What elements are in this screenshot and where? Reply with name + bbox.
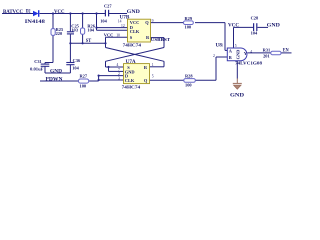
- wire R29 to gate A vertical: [195, 22, 225, 24]
- svg-text:5: 5: [152, 75, 154, 79]
- svg-text:3: 3: [118, 77, 120, 81]
- svg-text:104: 104: [72, 66, 79, 71]
- svg-text:D2: D2: [26, 9, 31, 15]
- wire R31 to EN label: [281, 52, 292, 54]
- svg-text:201: 201: [263, 54, 270, 59]
- wire right cross vertical upper: [163, 38, 165, 48]
- svg-text:VCC: VCC: [228, 22, 239, 28]
- svg-text:74HC74: 74HC74: [123, 43, 142, 48]
- wire GND net horizontal: [45, 72, 70, 74]
- svg-text:USBRST: USBRST: [151, 37, 170, 42]
- svg-text:4: 4: [250, 50, 252, 54]
- wire R26 bottom to ST bus: [82, 34, 84, 43]
- wire U7B CLK pin: [97, 29, 128, 31]
- wire U7B R pin: [151, 37, 165, 39]
- wire C28 to GND label: [258, 26, 269, 28]
- svg-text:1: 1: [152, 63, 154, 67]
- svg-text:103: 103: [71, 28, 78, 33]
- svg-text:EN: EN: [283, 48, 289, 54]
- wire gate A stub: [225, 49, 227, 51]
- wire U7A D pin: [99, 75, 124, 77]
- wire U7B Q to R29: [151, 22, 184, 24]
- svg-text:GND: GND: [230, 93, 244, 99]
- wire diagonal top-left to bottom-right: [106, 48, 165, 62]
- capacitor C36: [66, 63, 74, 65]
- svg-text:Q: Q: [145, 20, 149, 25]
- wire U7A R pin: [150, 66, 165, 68]
- wire top rail left of diode: [2, 13, 33, 15]
- resistor R25: [51, 29, 55, 36]
- wire left cross vertical lower: [105, 61, 107, 67]
- svg-text:104: 104: [100, 18, 107, 23]
- svg-text:ST: ST: [86, 38, 92, 44]
- svg-text:BATVCC: BATVCC: [3, 9, 23, 15]
- svg-text:1: 1: [221, 43, 223, 47]
- wire C25 bottom to ST bus: [69, 34, 71, 43]
- svg-text:4: 4: [117, 63, 119, 67]
- wire top rail C27 to GND label: [109, 13, 127, 15]
- svg-text:R29: R29: [185, 16, 193, 21]
- wire R25 vertical bottom to C31: [52, 35, 54, 62]
- svg-text:9: 9: [152, 19, 154, 23]
- svg-text:PDWN: PDWN: [46, 76, 63, 82]
- wire left cross vertical upper: [105, 37, 107, 47]
- wire U7A GND stub vertical: [108, 67, 110, 71]
- svg-text:R27: R27: [80, 73, 88, 78]
- svg-text:GND: GND: [50, 68, 62, 74]
- svg-text:C31: C31: [34, 59, 42, 64]
- svg-text:10: 10: [116, 34, 120, 38]
- resistor R31: [271, 51, 281, 55]
- power ground symbol: [233, 79, 242, 90]
- wire D-CLK junction vertical: [98, 76, 100, 81]
- svg-text:100: 100: [80, 83, 87, 88]
- wire U7A S pin: [106, 66, 124, 68]
- svg-text:CLK: CLK: [125, 78, 135, 83]
- wire C25 vertical top: [69, 14, 71, 32]
- wire VCC to C28: [234, 26, 254, 28]
- svg-text:B: B: [229, 55, 232, 60]
- resistor R29: [184, 21, 194, 25]
- wire R27 to junction: [89, 80, 99, 82]
- svg-text:IN4148: IN4148: [25, 19, 46, 25]
- wire U7A Q to R28: [150, 79, 184, 81]
- svg-text:5: 5: [235, 44, 237, 48]
- svg-text:14: 14: [118, 19, 122, 23]
- svg-text:C36: C36: [73, 58, 81, 63]
- wire gate B stub: [216, 56, 227, 58]
- diode D2: [33, 10, 39, 17]
- svg-text:100: 100: [185, 83, 192, 88]
- svg-text:104: 104: [87, 28, 94, 33]
- wire C31 bottom to GND net wire: [44, 66, 46, 73]
- wire VCC feed vertical to U7B: [96, 14, 98, 31]
- capacitor C25: [67, 32, 74, 34]
- wire PDWN to R27: [40, 80, 79, 82]
- svg-text:74LVC1G08: 74LVC1G08: [235, 61, 263, 66]
- svg-text:Q: Q: [144, 78, 148, 83]
- capacitor C31: [41, 64, 50, 66]
- wire gate VCC pin vertical: [233, 27, 235, 48]
- svg-text:GND: GND: [236, 50, 241, 60]
- svg-text:220: 220: [56, 31, 63, 36]
- wire C36 vertical from ST bus: [69, 43, 71, 62]
- wire U7A GND pin stub: [109, 70, 124, 72]
- junction dots: [52, 12, 110, 81]
- wire U7B S pin: [106, 36, 128, 38]
- wire top rail diode to C27: [40, 13, 105, 15]
- svg-text:CLK: CLK: [130, 29, 140, 34]
- svg-text:104: 104: [251, 31, 258, 36]
- resistor R28: [184, 79, 196, 83]
- wire ST bus: [70, 42, 105, 44]
- svg-text:C28: C28: [251, 15, 259, 20]
- wire diagonal bottom-left to top-right: [106, 48, 165, 62]
- svg-text:VCC: VCC: [104, 33, 114, 38]
- capacitor C28: [254, 23, 257, 31]
- wire U7A CLK pin: [99, 79, 124, 81]
- wire gate Y output to R31: [247, 52, 270, 54]
- capacitor C27: [105, 10, 108, 17]
- wire R26 vertical top: [82, 14, 84, 29]
- svg-text:R31: R31: [263, 48, 271, 53]
- wire gate GND pin vertical: [236, 61, 238, 79]
- svg-text:R28: R28: [185, 74, 193, 79]
- resistor R27: [79, 79, 89, 83]
- wire U7B D pin: [97, 27, 128, 29]
- wire R28 to gate B vertical: [195, 79, 216, 81]
- wire C36 bottom to GND net wire: [69, 65, 71, 73]
- svg-text:12: 12: [121, 24, 125, 28]
- svg-text:GND: GND: [267, 22, 280, 28]
- svg-text:74HC74: 74HC74: [122, 84, 141, 89]
- svg-text:100: 100: [185, 24, 192, 29]
- svg-text:2: 2: [213, 54, 215, 58]
- svg-text:C27: C27: [104, 3, 112, 8]
- svg-text:0.01uF: 0.01uF: [30, 66, 44, 71]
- svg-text:VCC: VCC: [54, 9, 65, 15]
- wire right cross vertical lower: [163, 61, 165, 67]
- wire R25 vertical top: [52, 14, 54, 29]
- resistor R26: [81, 28, 85, 34]
